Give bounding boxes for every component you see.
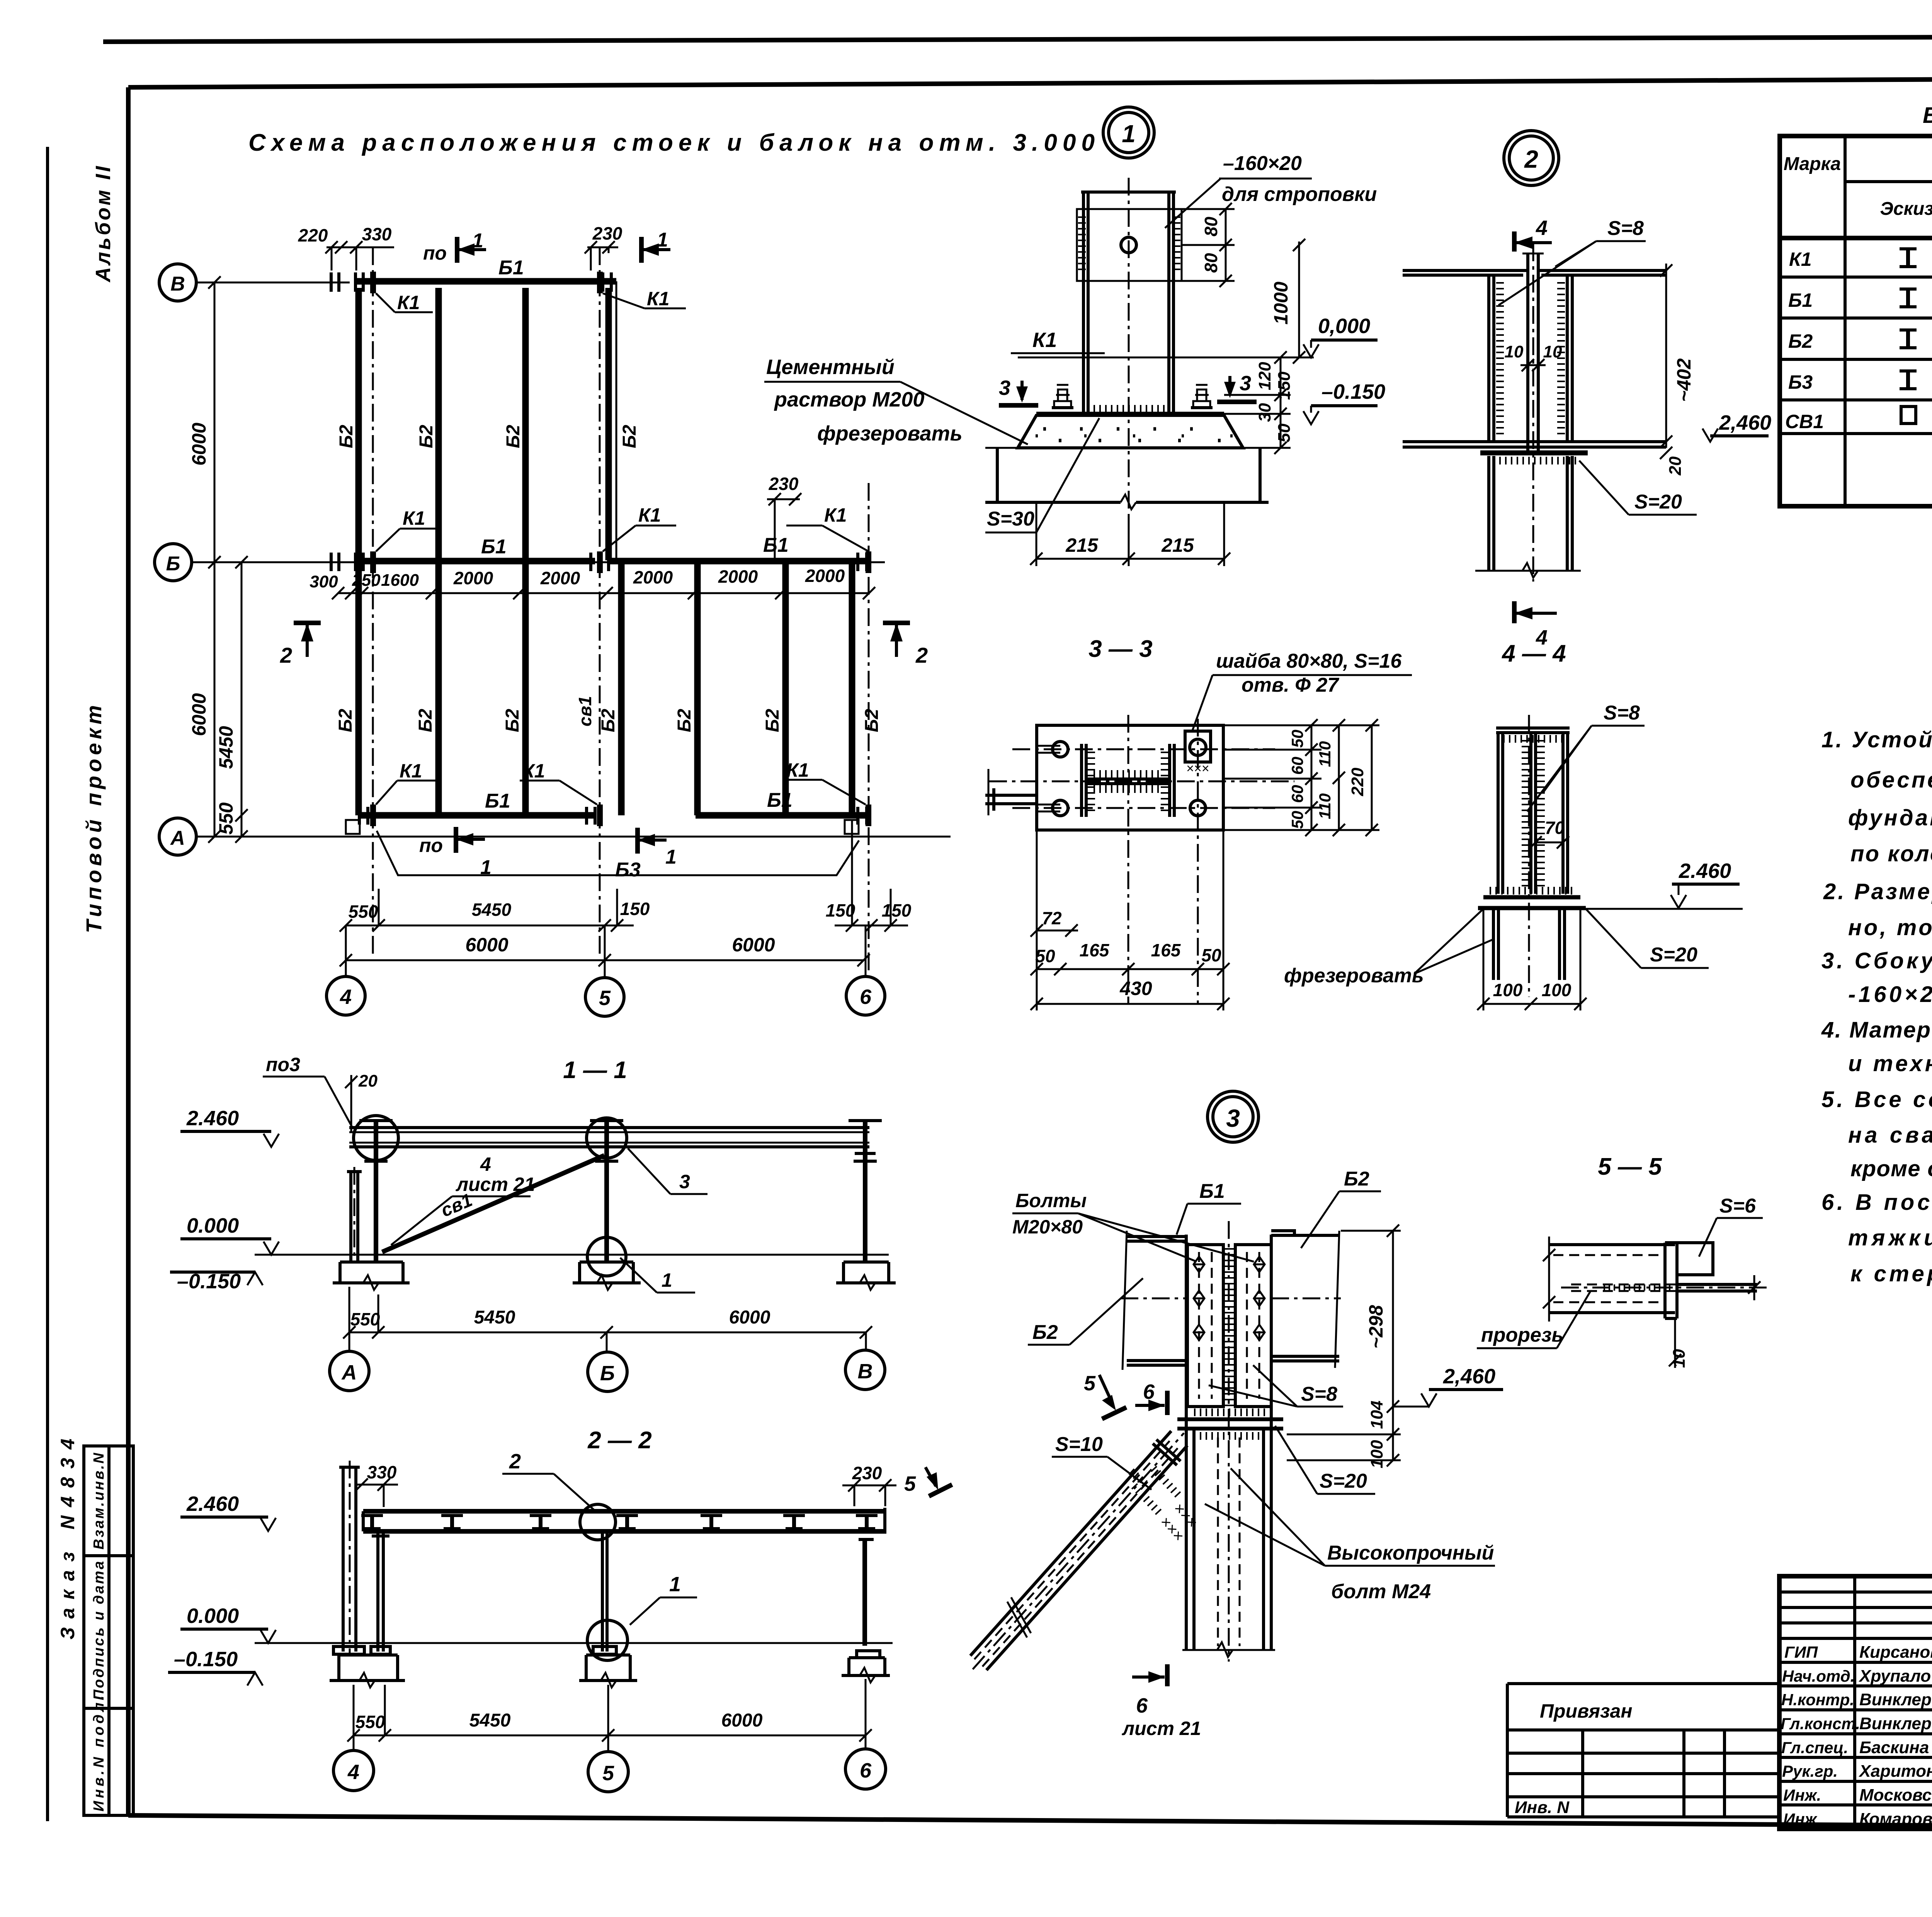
left dim 6000 В-Б: [188, 276, 221, 568]
left beam stub: [985, 769, 1037, 815]
bracket under row А: [377, 831, 859, 875]
label S=30: [985, 418, 1099, 532]
bottom dim 6000 6000: [340, 934, 870, 966]
level -0.150: [1303, 380, 1385, 424]
svg-text:К1: К1: [397, 292, 420, 313]
axis circle 6: [846, 925, 885, 1015]
svg-text:2: 2: [1524, 145, 1538, 173]
bottom dim 72: [1031, 908, 1078, 937]
svg-text:4 — 4: 4 — 4: [1501, 640, 1566, 667]
paper left edge line: [46, 147, 49, 1821]
splice plates with bolts: [1187, 1245, 1271, 1407]
column top symbol right: [849, 1121, 882, 1161]
svg-text:550: 550: [355, 1712, 385, 1732]
svg-text:150: 150: [620, 899, 650, 919]
column stem: [1522, 253, 1544, 451]
svg-text:1: 1: [662, 1269, 672, 1291]
dim 20: [345, 1072, 378, 1132]
svg-text:300: 300: [310, 572, 338, 591]
label Б2 left: [1028, 1278, 1143, 1345]
beam Б1 row А span 5-6: [696, 789, 867, 815]
svg-text:150: 150: [826, 900, 855, 920]
column К1 marks row А: [370, 760, 437, 826]
svg-text:20: 20: [358, 1072, 378, 1090]
top dim 230 at axis 5: [585, 223, 622, 270]
svg-text:В: В: [858, 1360, 873, 1383]
svg-text:3: 3: [999, 376, 1010, 400]
end plate: [1665, 1243, 1677, 1318]
svg-text:S=20: S=20: [1650, 944, 1697, 966]
svg-text:Б3: Б3: [615, 859, 641, 881]
base plate outline: [1037, 725, 1223, 830]
middle column: [602, 1531, 607, 1652]
svg-text:Б2: Б2: [762, 709, 783, 732]
svg-text:Привязан: Привязан: [1540, 1700, 1633, 1722]
joint circle узел 2: [580, 1504, 616, 1540]
svg-text:–0.150: –0.150: [1321, 380, 1385, 403]
svg-text:Б2: Б2: [1788, 330, 1813, 352]
foundation mid 2-2: [579, 1647, 637, 1687]
svg-text:тяжки резьбу забить или пр: тяжки резьбу забить или приварить гайки: [1848, 1225, 1932, 1250]
svg-text:св1: св1: [575, 696, 595, 726]
column К1 marks row В: [370, 272, 433, 313]
svg-text:фрезеровать: фрезеровать: [1284, 964, 1424, 987]
svg-text:0,000: 0,000: [1318, 315, 1370, 338]
column K1 shafts: [1081, 192, 1176, 413]
svg-text:550: 550: [349, 902, 378, 922]
svg-text:2.460: 2.460: [186, 1107, 239, 1130]
dim 220: [1223, 719, 1379, 836]
anchor bolts: [1052, 385, 1213, 408]
ground line: [255, 1254, 889, 1256]
bottom dim 430: [1031, 830, 1230, 1010]
svg-text:–0.150: –0.150: [174, 1648, 238, 1671]
svg-text:кроме оговоренных: кроме оговоренных: [1850, 1156, 1932, 1181]
foundation pedestals 1-1: [333, 1262, 410, 1290]
svg-text:1: 1: [657, 229, 668, 251]
column top symbol left: [359, 1121, 393, 1161]
foundation left 2-2: [330, 1647, 405, 1687]
joint circle left (узел 2): [354, 1116, 398, 1160]
svg-text:20: 20: [1666, 456, 1685, 476]
svg-text:для строповки: для строповки: [1222, 183, 1377, 206]
beam end ticks row В: [330, 272, 333, 292]
svg-text:72: 72: [1042, 908, 1062, 928]
svg-text:50: 50: [1275, 424, 1294, 442]
svg-text:А: А: [341, 1361, 357, 1384]
level -0.150: [168, 1648, 263, 1686]
svg-text:220: 220: [1348, 767, 1367, 796]
foundation: [985, 448, 1269, 509]
beam Б1 row Б span 5-6: [609, 534, 867, 561]
standing column axis А: [347, 1167, 362, 1264]
svg-text:Высокопрочный: Высокопрочный: [1327, 1542, 1494, 1564]
beam at +2.460: [349, 1128, 869, 1147]
name rows: [1779, 1661, 1932, 1664]
Привязан table: [1507, 1684, 1779, 1817]
left margin mini table: [84, 1446, 133, 1815]
svg-text:80: 80: [1201, 253, 1221, 273]
table header row lines: [1845, 180, 1932, 183]
dim 1000: [1270, 239, 1305, 364]
svg-text:6000: 6000: [188, 693, 210, 736]
svg-text:10: 10: [1505, 342, 1524, 361]
svg-text:1: 1: [669, 1573, 681, 1596]
svg-text:Хрупало: Хрупало: [1858, 1667, 1931, 1686]
foundation right 2-2: [842, 1651, 890, 1682]
section mark 1 top right: [641, 229, 670, 263]
left dim 5450/550: [215, 556, 248, 843]
base plate: [1036, 409, 1224, 414]
narrow top rows: [1779, 1590, 1932, 1594]
svg-text:2000: 2000: [633, 567, 673, 587]
svg-text:30: 30: [1255, 403, 1274, 422]
svg-text:Инж: Инж: [1783, 1810, 1818, 1828]
svg-text:Рук.гр.: Рук.гр.: [1782, 1762, 1838, 1780]
svg-text:но, точные размеры смотреть: но, точные размеры смотреть в ТУ 14-2-24…: [1848, 915, 1932, 940]
svg-text:Б1: Б1: [481, 536, 507, 558]
label S=20: [1579, 461, 1697, 515]
cement mortar label: [764, 356, 1028, 445]
label прорезь: [1477, 1291, 1591, 1348]
svg-text:фундаменты: в продольном на: фундаменты: в продольном направлении – с…: [1848, 805, 1932, 830]
svg-text:по: по: [419, 835, 443, 856]
svg-text:60: 60: [1288, 757, 1306, 775]
svg-text:Б2: Б2: [1032, 1321, 1058, 1344]
leader to strap label: [1165, 179, 1221, 228]
svg-text:раствор М200: раствор М200: [774, 388, 924, 411]
svg-text:болт М24: болт М24: [1331, 1580, 1431, 1603]
dim 10 10: [1505, 342, 1562, 371]
mid dim row 300 250 1600 2000x5: [310, 566, 875, 599]
label Б1: [1177, 1180, 1241, 1235]
section mark 6 lower: [1122, 1664, 1201, 1739]
cap plate: [1480, 453, 1588, 461]
beam end ticks row А: [358, 807, 361, 825]
label Б2 right: [1301, 1168, 1381, 1248]
axis circle А: [159, 818, 196, 855]
svg-text:Б3: Б3: [1788, 371, 1813, 393]
svg-text:СВ1: СВ1: [1785, 411, 1824, 432]
svg-text:104: 104: [1367, 1401, 1386, 1429]
svg-text:6: 6: [860, 985, 872, 1009]
svg-text:Б1: Б1: [1199, 1180, 1225, 1203]
svg-text:отв. Ф 27: отв. Ф 27: [1242, 674, 1339, 696]
dim 230: [842, 1463, 896, 1506]
cap plate at 2.460: [1177, 1412, 1283, 1436]
level 0.000: [1303, 315, 1378, 357]
svg-text:S=30: S=30: [987, 508, 1034, 530]
svg-text:Схема расположения стоек и: Схема расположения стоек и балок на отм.…: [248, 129, 1095, 156]
svg-text:Б2: Б2: [598, 709, 619, 732]
svg-text:обеспечивается жестким защем: обеспечивается жестким защемлением колон…: [1850, 767, 1932, 793]
dim chain 110 110: [1316, 719, 1345, 836]
svg-text:430: 430: [1119, 978, 1152, 999]
svg-text:ГИП: ГИП: [1784, 1643, 1818, 1661]
svg-text:2 — 2: 2 — 2: [587, 1427, 651, 1454]
axis circles 4 5 6: [333, 1735, 374, 1791]
svg-text:3: 3: [1240, 372, 1251, 395]
label S=20: [1275, 1426, 1375, 1494]
svg-text:215: 215: [1065, 534, 1099, 556]
svg-text:Гл.конст.: Гл.конст.: [1781, 1715, 1860, 1733]
svg-text:110: 110: [1316, 793, 1334, 819]
column centerline: [1532, 243, 1534, 582]
svg-text:по3: по3: [266, 1054, 300, 1075]
svg-text:К1: К1: [403, 507, 425, 529]
svg-text:и техническую спецификацию: и техническую спецификацию металла: [1848, 1051, 1932, 1076]
beams Б2 upper band: [336, 288, 359, 560]
column below plate: [1493, 909, 1565, 980]
column top symbol mid: [590, 1121, 623, 1161]
beam Б1 row Б span 4-5: [355, 536, 595, 561]
svg-text:Б1: Б1: [485, 790, 510, 812]
svg-text:1000: 1000: [1270, 282, 1292, 325]
base joint circle узел 1: [587, 1620, 628, 1660]
level 2.460: [180, 1492, 276, 1531]
washer square and bolt: [1185, 731, 1211, 816]
svg-text:10: 10: [1670, 1349, 1689, 1368]
svg-text:1 — 1: 1 — 1: [563, 1057, 627, 1084]
svg-text:Кирсанов: Кирсанов: [1859, 1643, 1932, 1662]
node circle 3: [1207, 1091, 1259, 1142]
svg-text:230: 230: [769, 474, 799, 494]
svg-text:Б: Б: [166, 553, 180, 575]
svg-text:Б2: Б2: [1344, 1168, 1369, 1190]
label S=20: [1586, 909, 1709, 968]
mid dim 230 right: [767, 474, 801, 562]
svg-text:Б2: Б2: [335, 709, 356, 732]
left dim 6000 Б-А: [188, 562, 221, 843]
svg-text:6000: 6000: [721, 1710, 763, 1731]
section mark 4 top: [1514, 216, 1552, 252]
svg-text:1600: 1600: [381, 571, 419, 590]
diagonal brace СВ1: [958, 1420, 1198, 1682]
svg-text:6000: 6000: [732, 934, 775, 956]
label Болты М20х80: [1012, 1190, 1254, 1262]
svg-text:~402: ~402: [1673, 358, 1695, 402]
svg-text:К1: К1: [647, 288, 670, 310]
node circle 2: [1504, 131, 1559, 185]
svg-text:Н.контр.: Н.контр.: [1781, 1691, 1854, 1709]
column axis 5 dash-dot: [599, 247, 601, 958]
column К1 marks row Б: [370, 507, 440, 573]
label К1: [1011, 328, 1105, 353]
beams Б2 lower band: [335, 564, 359, 815]
svg-text:Б2: Б2: [336, 425, 357, 448]
svg-text:лист 21: лист 21: [1122, 1718, 1201, 1739]
label S=8: [1527, 702, 1645, 811]
svg-text:Б2: Б2: [862, 709, 882, 732]
svg-text:прорезь: прорезь: [1481, 1324, 1563, 1346]
bottom dim 550 5450 150: [340, 889, 650, 932]
centerline: [1528, 715, 1530, 997]
section mark 2 right: [883, 623, 928, 667]
bottom dim 50 165 165 50: [1031, 940, 1230, 975]
svg-text:230: 230: [852, 1463, 882, 1483]
svg-text:4: 4: [480, 1153, 491, 1175]
left beam Б2: [1121, 1231, 1186, 1370]
svg-text:6000: 6000: [188, 423, 210, 466]
svg-text:2000: 2000: [540, 568, 580, 588]
svg-text:5: 5: [602, 1762, 614, 1785]
svg-text:50: 50: [1288, 730, 1306, 748]
svg-text:–160×20: –160×20: [1223, 152, 1302, 175]
svg-text:2,460: 2,460: [1719, 411, 1771, 434]
right dim chain 120 150 30 50: [1224, 351, 1294, 454]
label 4 лист 21: [391, 1153, 535, 1245]
svg-text:165: 165: [1080, 940, 1110, 960]
label S=6: [1699, 1195, 1763, 1257]
dim 104 / 100: [1287, 1401, 1401, 1468]
svg-text:2.460: 2.460: [1679, 859, 1731, 883]
svg-text:шайба 80×80, S=16: шайба 80×80, S=16: [1216, 650, 1402, 672]
svg-text:1: 1: [1122, 120, 1136, 148]
svg-text:К1: К1: [786, 759, 809, 781]
title block outer border: [1779, 1576, 1932, 1829]
svg-text:60: 60: [1288, 785, 1306, 803]
svg-text:150: 150: [1275, 371, 1294, 400]
right dim chain 50 60 60 50: [1223, 719, 1321, 836]
bottom dim 215 215: [1030, 502, 1230, 566]
svg-text:5: 5: [599, 987, 611, 1010]
svg-text:S=8: S=8: [1301, 1383, 1337, 1405]
svg-text:S=6: S=6: [1719, 1195, 1756, 1217]
svg-text:0.000: 0.000: [187, 1214, 239, 1237]
svg-text:5: 5: [904, 1472, 916, 1495]
beam Б1 row В: [355, 257, 616, 281]
label 3: [628, 1148, 707, 1194]
svg-text:1: 1: [665, 846, 677, 868]
svg-text:S=8: S=8: [1607, 217, 1644, 240]
svg-text:А: А: [170, 827, 185, 849]
section mark 5: [1084, 1372, 1126, 1419]
svg-text:Инв. N: Инв. N: [1515, 1798, 1570, 1817]
section mark 6 upper: [1135, 1380, 1167, 1415]
second column at axis 4: [372, 1531, 389, 1652]
washer label: [1192, 650, 1412, 731]
sheet frame bottom: [128, 1815, 1932, 1829]
cap plate: [1478, 891, 1586, 908]
svg-text:В: В: [170, 273, 185, 295]
svg-text:1: 1: [480, 856, 492, 879]
section mark 2 left: [280, 623, 321, 667]
svg-text:К1: К1: [522, 760, 545, 782]
dim row 550 5450 6000: [343, 1287, 872, 1339]
bolt holes left: [1037, 742, 1068, 816]
table column lines: [1844, 136, 1847, 506]
svg-text:110: 110: [1316, 741, 1334, 767]
svg-text:0.000: 0.000: [187, 1604, 239, 1628]
joint circle mid (узел 3): [587, 1118, 627, 1158]
svg-text:Винклер: Винклер: [1859, 1690, 1932, 1709]
svg-text:2,460: 2,460: [1443, 1365, 1495, 1388]
svg-text:Нач.отд.: Нач.отд.: [1782, 1667, 1855, 1685]
svg-text:2: 2: [915, 643, 928, 667]
svg-text:4: 4: [347, 1761, 359, 1784]
upper band right edge: [616, 281, 617, 561]
foundation squares row А: [346, 820, 360, 834]
svg-text:5: 5: [1084, 1372, 1096, 1395]
dim ~402: [1660, 264, 1695, 448]
label S=10: [1052, 1433, 1151, 1490]
svg-text:330: 330: [362, 224, 392, 244]
svg-text:К1: К1: [1789, 248, 1812, 270]
svg-text:S=20: S=20: [1634, 491, 1682, 513]
svg-text:330: 330: [367, 1462, 397, 1482]
column below: [1475, 456, 1581, 578]
svg-text:2000: 2000: [718, 566, 758, 587]
svg-text:Б2: Б2: [502, 709, 523, 732]
svg-text:Б1: Б1: [763, 534, 789, 556]
svg-text:100: 100: [1542, 980, 1571, 1000]
svg-text:2: 2: [509, 1450, 521, 1473]
svg-text:Винклер: Винклер: [1859, 1714, 1932, 1733]
axis line Б: [192, 561, 885, 563]
svg-text:Б2: Б2: [619, 425, 640, 448]
svg-text:К1: К1: [824, 504, 847, 526]
Б2 I-symbols in beam: [361, 1516, 878, 1529]
level -0.150: [170, 1270, 263, 1293]
top flange left beam: [1403, 270, 1526, 275]
svg-text:80: 80: [1201, 216, 1221, 236]
signature table columns: [1853, 1576, 1856, 1829]
svg-text:120: 120: [1255, 362, 1274, 390]
svg-text:2000: 2000: [805, 566, 845, 586]
svg-text:215: 215: [1161, 534, 1194, 556]
beam strip at +2.460: [363, 1508, 885, 1534]
svg-text:Харитонов: Харитонов: [1858, 1762, 1932, 1781]
column К1 flanges: [1182, 1221, 1275, 1662]
label S=8: [1498, 217, 1646, 305]
sheet frame top: [128, 77, 1932, 87]
label 2: [502, 1450, 594, 1510]
svg-text:~298: ~298: [1365, 1305, 1387, 1349]
section mark 3 right: [1217, 372, 1257, 402]
svg-text:лист 21: лист 21: [456, 1174, 535, 1195]
column axis 6 dash-dot: [868, 483, 870, 974]
svg-text:6000: 6000: [729, 1307, 770, 1328]
svg-text:5450: 5450: [472, 900, 512, 920]
svg-text:3 — 3: 3 — 3: [1088, 636, 1152, 662]
paper top edge line: [103, 36, 1932, 42]
section mark 4 bottom: [1514, 601, 1557, 649]
svg-text:100: 100: [1493, 980, 1523, 1000]
label Высокопрочный болт М24: [1205, 1468, 1495, 1603]
svg-text:Б2: Б2: [416, 425, 437, 448]
svg-text:Эскиз: Эскиз: [1880, 199, 1932, 219]
column centerline: [1128, 178, 1130, 510]
level 2.460: [1586, 859, 1743, 909]
svg-text:Гл.спец.: Гл.спец.: [1781, 1738, 1848, 1757]
label по3: [263, 1054, 352, 1128]
svg-text:4: 4: [1536, 216, 1548, 240]
svg-text:165: 165: [1151, 940, 1181, 960]
node circle 1: [1103, 107, 1154, 158]
svg-text:70: 70: [1545, 818, 1565, 838]
svg-text:5450: 5450: [469, 1710, 511, 1731]
svg-text:К1: К1: [1032, 328, 1057, 352]
svg-text:3: 3: [1226, 1104, 1240, 1132]
svg-text:50: 50: [1035, 946, 1055, 966]
svg-text:Подпись и дата: Подпись и дата: [91, 1561, 107, 1700]
label S=8: [1209, 1365, 1343, 1407]
axis line А: [196, 836, 951, 838]
column I-section: [1082, 744, 1174, 817]
svg-text:Б2: Б2: [674, 709, 695, 732]
dim 20: [1660, 447, 1685, 476]
svg-text:6: 6: [860, 1759, 872, 1782]
